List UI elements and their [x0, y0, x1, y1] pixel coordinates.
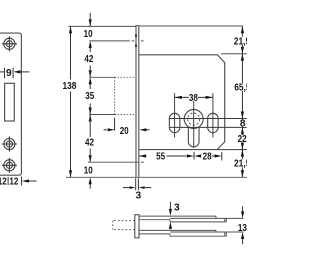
chain arrows at x90.2: [89, 13, 92, 189]
oval vertical center lines: [175, 93, 213, 138]
chain line y162.2 with dashes across plate: [88, 161, 136, 163]
tiny arrows on faceplate at latch line: [135, 35, 137, 39]
svg-text:3: 3: [135, 190, 141, 201]
dimension 13 bottom view: [242, 206, 244, 244]
top extension line right of faceplate: [139, 25, 243, 27]
svg-text:138: 138: [62, 81, 76, 92]
svg-text:3: 3: [174, 202, 180, 213]
svg-text:20: 20: [120, 126, 129, 137]
euro cylinder hole: [184, 110, 203, 129]
svg-text:10: 10: [84, 165, 93, 176]
text backers: [233, 37, 247, 45]
dotted vertical x114.6: [114, 77, 116, 114]
dimension 12|12: [8, 177, 36, 186]
screw hole middle: [2, 136, 17, 151]
oval hole right: [208, 113, 219, 132]
dimension 3 faceplate thickness: [136, 178, 139, 190]
svg-text:8: 8: [240, 119, 246, 130]
screw hole bottom: [2, 158, 17, 173]
bolt cutout rectangle: [5, 83, 15, 121]
svg-text:35: 35: [85, 91, 94, 102]
extension line from case bottom right: [218, 149, 247, 151]
chain extension line top left: [68, 25, 136, 27]
svg-text:65,5: 65,5: [234, 82, 247, 93]
oval hole left: [169, 113, 180, 132]
svg-text:22: 22: [238, 134, 247, 145]
svg-text:10: 10: [84, 29, 93, 40]
dashed hook extended: [113, 220, 135, 222]
faceplate bottom view: [135, 215, 139, 238]
chain line y77.3: [89, 76, 114, 78]
svg-text:13: 13: [238, 223, 247, 234]
svg-text:42: 42: [84, 54, 93, 65]
svg-text:12: 12: [0, 177, 7, 188]
right dimension column x242.4: [241, 26, 243, 177]
svg-text:42: 42: [85, 138, 94, 149]
cylinder vertical center line: [193, 101, 195, 148]
chain line y40.9 with dashes across plate: [89, 40, 130, 42]
dimension 55 / 28: [139, 155, 215, 157]
svg-text:21,5: 21,5: [234, 159, 247, 170]
step ticks bottom view: [169, 220, 171, 237]
bottom extension line full width: [66, 176, 247, 178]
case bottom view top lines: [139, 215, 216, 217]
svg-text:38: 38: [189, 93, 198, 104]
screw hole top: [2, 36, 17, 51]
svg-text:55: 55: [156, 152, 165, 163]
horizontal extension line y127.4: [169, 126, 247, 128]
dashed cylinder circle: [188, 113, 200, 125]
overall dimension 138 vertical line: [70, 26, 72, 177]
svg-text:9: 9: [6, 68, 12, 79]
faceplate front view outline: [0, 33, 21, 175]
dimension 3 bottom view: [169, 202, 171, 210]
dimension 38: [175, 96, 213, 98]
cylinder slot: [188, 127, 199, 147]
svg-text:28: 28: [203, 152, 212, 163]
dotted continuation y114.5: [115, 114, 136, 116]
svg-text:12: 12: [9, 177, 18, 188]
lock case outline: [139, 55, 225, 150]
chain line y114.5: [89, 114, 114, 116]
case bottom view bottom lines: [139, 229, 216, 231]
dimension 9: [0, 68, 29, 79]
faceplate side view (edge-on): [136, 26, 139, 178]
svg-text:21,5: 21,5: [234, 36, 247, 47]
horizontal extension line y118.5: [169, 118, 247, 120]
dotted continuation y77.3: [115, 76, 136, 78]
extension line from case top right: [221, 53, 247, 55]
dimension 20: [114, 118, 116, 131]
